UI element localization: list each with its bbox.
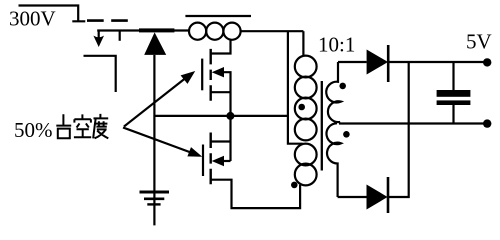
svg-text:5V: 5V [466,30,492,54]
transistor Q1 body arrow [212,67,231,116]
waveform dashed mid level [87,19,128,22]
transistor Q2 gate [202,145,204,177]
wire left rail [153,55,155,226]
transistor Q1 drain [211,40,231,54]
waveform high-level line [19,6,86,22]
label 10:1 [318,33,355,57]
diode D3 cathode bar [387,177,390,213]
transformer T1 secondary dot lower [343,131,350,138]
capacitor C1 plates [437,90,471,105]
diode D2 cathode bar [387,45,390,82]
transformer T1 primary winding upper [295,31,317,140]
transformer T1 primary winding lower [295,144,317,186]
svg-text:50%: 50% [14,118,53,142]
inductor L1 [189,23,241,40]
transistor Q1 gate [201,59,203,91]
annotation CJK zhan [56,114,71,138]
annotation arrow to Q1 gate [124,71,195,127]
waveform stub [119,30,121,40]
wire diode D3 to top rail [388,62,409,197]
label 300V [9,7,56,31]
annotation label 50% duty [14,118,53,142]
terminal dot output plus [483,58,491,66]
diode D1 freewheel triangle [144,32,166,55]
transformer T1 secondary winding upper [326,62,341,122]
svg-text:10:1: 10:1 [318,33,355,57]
capacitor C1 bottom lead [452,105,454,124]
transistor Q2 channel [209,133,211,185]
annotation arrow to Q2 gate [123,128,202,157]
node junction dot [226,112,234,120]
transistor Q2 drain [211,116,231,161]
wire top rail [97,29,189,31]
wire output bottom rail center tap [339,122,487,124]
diode D2 triangle [367,50,388,75]
inductor L1 core line [185,15,251,17]
transformer T1 primary tap wire [288,31,303,144]
waveform low-level line [84,56,116,92]
ground [140,192,170,204]
wire secondary bottom to diode D3 [338,196,367,198]
wire secondary top to diode D2 [338,61,367,63]
transistor Q2 source [211,180,300,208]
transistor Q2 body arrow [212,156,231,166]
transistor Q1 source [211,91,231,93]
svg-text:300V: 300V [9,7,56,31]
transformer T1 secondary dot upper [339,83,346,90]
transformer T1 core [321,81,323,171]
diode D1 freewheel cathode bar [139,28,174,32]
transformer T1 primary dot upper [298,104,305,111]
annotation CJK du [93,114,108,138]
label 5V [466,30,492,54]
diode D3 triangle [367,185,388,210]
terminal dot output minus [483,119,491,127]
transformer T1 primary dot lower [291,182,298,189]
wire node A [241,30,304,32]
transistor Q1 channel [209,49,211,101]
wire mid rail [154,115,288,117]
annotation CJK kong [74,114,91,137]
wire output top rail [388,61,487,63]
capacitor C1 top lead [452,62,454,90]
transformer T1 secondary winding lower [327,123,341,197]
waveform down arrow [93,30,104,47]
